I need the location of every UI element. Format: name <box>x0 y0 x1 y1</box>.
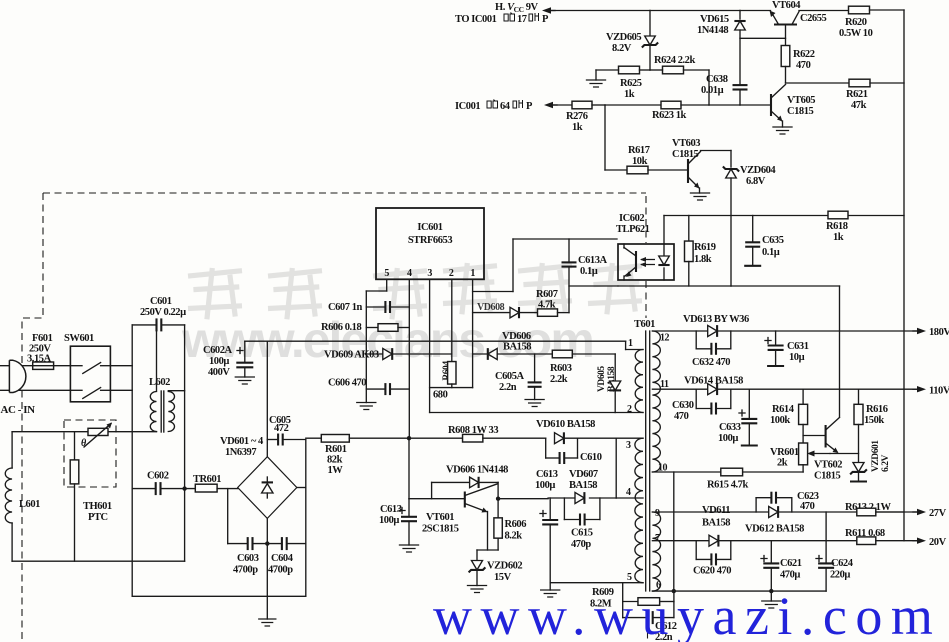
wire LED anode up to R618 row <box>663 216 665 245</box>
svg-text:VD601 ~ 4: VD601 ~ 4 <box>220 436 264 447</box>
optocoupler IC602 TLP621 <box>616 213 674 280</box>
fuse F601 250V 3.15A <box>27 333 54 369</box>
wire VZD604 anode down to IC602 bottom net <box>730 178 732 286</box>
svg-text:2k: 2k <box>777 458 788 469</box>
wire IC601 pin5 to left rail and ground <box>366 279 386 402</box>
svg-text:R621: R621 <box>846 89 868 100</box>
capacitor C631 10u <box>765 331 809 366</box>
bridge rectifier VD601~4 1N6397 <box>220 436 297 518</box>
wire R624 to R623 junction <box>708 70 710 105</box>
wire B+ rail to T601 pin1 <box>245 341 643 349</box>
svg-text:C601: C601 <box>150 296 172 307</box>
svg-text:VT603: VT603 <box>672 138 700 149</box>
svg-text:IC602: IC602 <box>619 213 644 224</box>
svg-text:VD615: VD615 <box>700 14 729 25</box>
wire VD610 row down to VD607 row <box>615 438 617 498</box>
diode VD606 1N4148 (base-collector) <box>432 465 509 499</box>
svg-text:47k: 47k <box>851 100 867 111</box>
AC plug <box>9 360 25 392</box>
output arrow 27V <box>913 508 947 519</box>
resistor R614 100k <box>770 389 808 443</box>
svg-text:1N6397: 1N6397 <box>225 447 256 458</box>
ground at second C613 <box>541 583 560 597</box>
svg-text:150k: 150k <box>864 415 884 426</box>
transistor VT602 C1815 <box>803 418 858 482</box>
svg-text:C610: C610 <box>580 452 602 463</box>
capacitor C635 0.1u <box>744 216 784 266</box>
svg-text:2.2k: 2.2k <box>550 374 568 385</box>
diode VD608 <box>473 302 519 318</box>
ground at C602A <box>235 377 254 384</box>
capacitor C633 100u <box>718 389 758 445</box>
svg-text:C615: C615 <box>571 528 593 539</box>
wire 680 row (pin3 to pin1 via R604 bottom) <box>430 387 473 389</box>
T601 secondary winding 9-7-6 <box>652 508 661 591</box>
svg-text:L601: L601 <box>19 499 40 510</box>
resistor R621 47k <box>846 79 904 111</box>
svg-text:1k: 1k <box>624 89 635 100</box>
svg-text:C624: C624 <box>831 558 854 569</box>
wire IC001 64pin row with arrow <box>544 102 572 108</box>
capacitor C607 1n <box>328 301 409 313</box>
svg-text:110V: 110V <box>929 386 949 397</box>
svg-text:VD613 BY W36: VD613 BY W36 <box>683 314 749 325</box>
wire R276-R623 node down to R617 <box>605 105 627 170</box>
transistor VT605 C1815 <box>771 85 815 128</box>
resistor R609 8.2M <box>590 583 674 610</box>
ground at VT605 emitter <box>773 127 792 134</box>
svg-text:VD614 BA158: VD614 BA158 <box>684 376 743 387</box>
svg-text:1: 1 <box>628 338 633 349</box>
wire C601 left branch down to L602 left top <box>156 325 158 391</box>
wire IC602 bottom row down to VT602 collector <box>839 286 841 417</box>
svg-text:L602: L602 <box>149 377 170 388</box>
svg-text:IC601: IC601 <box>417 222 442 233</box>
resistor R608 1W 33 <box>448 425 546 442</box>
resistor R623 1k <box>652 101 771 121</box>
resistor R618 1k <box>826 211 848 243</box>
capacitor C613A 0.1u <box>562 239 608 313</box>
svg-text:1W: 1W <box>328 465 344 476</box>
wire 20V row (pin 7) <box>652 540 856 542</box>
svg-text:VZD601: VZD601 <box>871 440 881 472</box>
thermistor TH601 heater <box>81 423 112 450</box>
wire C601-right vertical lower junction <box>182 486 186 561</box>
resistor R619 1.8k <box>685 216 716 287</box>
thermistor TH601 PTC body <box>70 432 79 562</box>
svg-text:5: 5 <box>384 268 389 279</box>
capacitor C621 470u <box>761 541 802 594</box>
wire switch outputs to vertical node <box>110 325 132 596</box>
svg-text:6.8V: 6.8V <box>746 176 766 187</box>
T601 primary winding 3-4-5 <box>626 438 643 583</box>
svg-text:470: 470 <box>796 60 811 71</box>
resistor R617 10k <box>627 145 688 174</box>
wire collector node row <box>496 497 548 501</box>
svg-text:0.1µ: 0.1µ <box>580 266 598 277</box>
svg-text:BA158: BA158 <box>702 518 730 529</box>
capacitor C638 0.01u <box>701 74 748 105</box>
resistor R606 0.18 <box>321 322 409 333</box>
diode VD607 BA158 <box>569 469 598 504</box>
svg-text:4700p: 4700p <box>268 565 293 576</box>
wire pin1 node to C613A (jog up) <box>473 291 513 293</box>
resistor R622 470 <box>781 46 815 84</box>
svg-text:R618: R618 <box>826 221 848 232</box>
svg-text:3: 3 <box>427 268 432 279</box>
svg-text:AC - IN: AC - IN <box>1 404 36 416</box>
svg-text:400V: 400V <box>208 367 230 378</box>
svg-text:VT605: VT605 <box>787 95 815 106</box>
wire VD615-C638 node to VT604 base <box>740 37 786 39</box>
capacitor C603 4700p <box>228 489 268 576</box>
capacitor C606 470 <box>328 378 409 396</box>
capacitor C620 470 <box>693 541 731 577</box>
svg-text:470: 470 <box>800 501 815 512</box>
degauss coil L601 <box>5 432 40 562</box>
output arrow 180V <box>913 327 949 338</box>
svg-text:P: P <box>542 14 549 25</box>
diode VD606 BA158 (snubber) <box>473 331 552 360</box>
wire 110V row (pin 11) <box>652 388 917 390</box>
ground at VZD602 <box>468 586 487 593</box>
diode VD605 BA158 (vertical) <box>597 354 621 413</box>
wire R608 row junction node <box>407 436 463 440</box>
svg-text:P: P <box>526 101 533 112</box>
dashed primary-side boundary <box>22 193 648 642</box>
svg-text:10µ: 10µ <box>789 352 805 363</box>
wire IC601 pin1 vertical <box>472 279 474 387</box>
svg-text:TH601: TH601 <box>83 501 112 512</box>
svg-text:VR601: VR601 <box>770 447 799 458</box>
svg-text:C630: C630 <box>672 400 694 411</box>
resistor R604 680 <box>433 361 456 401</box>
svg-text:R614: R614 <box>772 404 795 415</box>
svg-text:VD606 1N4148: VD606 1N4148 <box>446 465 508 476</box>
wire H.Vcc top rail <box>542 7 771 13</box>
svg-text:2.2n: 2.2n <box>499 382 517 393</box>
svg-text:4700p: 4700p <box>233 565 258 576</box>
zener VZD601 6.2V <box>850 440 891 482</box>
wire bridge - output down <box>266 518 268 543</box>
svg-text:VD610 BA158: VD610 BA158 <box>536 419 595 430</box>
svg-text:VD608: VD608 <box>477 302 505 313</box>
svg-text:R624 2.2k: R624 2.2k <box>654 55 695 66</box>
zener VZD604 6.8V <box>723 165 777 187</box>
svg-text:R606: R606 <box>505 519 527 530</box>
svg-text:R276: R276 <box>566 111 588 122</box>
capacitor C602A 100u 400V <box>203 341 253 378</box>
svg-text:VT604: VT604 <box>772 0 801 11</box>
svg-text:R622: R622 <box>793 49 815 60</box>
svg-text:TO IC001: TO IC001 <box>455 14 497 25</box>
capacitor C613 100u (second) <box>535 469 558 583</box>
svg-text:220µ: 220µ <box>830 570 850 581</box>
svg-text:C638: C638 <box>706 74 728 85</box>
capacitor C612 2.2n <box>623 602 677 642</box>
resistor R603 2.2k <box>550 350 615 385</box>
svg-text:VD607: VD607 <box>569 469 598 480</box>
wire pin6 common rail <box>652 589 826 593</box>
resistor R616 150k <box>854 389 888 462</box>
svg-text:www.wuyazi.com: www.wuyazi.com <box>433 586 941 642</box>
svg-text:VD609 AK03: VD609 AK03 <box>324 350 379 361</box>
capacitor C601 250V 0.22u <box>132 296 186 331</box>
wire pin10 down to pin6 rail <box>673 472 675 591</box>
dashed TH601 box <box>64 420 116 487</box>
diode VD614 BA158 <box>684 376 743 396</box>
svg-text:C613: C613 <box>380 504 402 515</box>
svg-text:C635: C635 <box>762 235 784 246</box>
diode VD615 1N4148 <box>697 11 746 85</box>
ground at VT603 emitter <box>691 193 710 200</box>
capacitor C610 <box>546 438 602 464</box>
diode VD613 BYW36 <box>683 314 749 337</box>
svg-text:VZD604: VZD604 <box>740 165 776 176</box>
svg-text:250V 0.22µ: 250V 0.22µ <box>140 307 186 318</box>
svg-text:IC001: IC001 <box>455 101 480 112</box>
resistor R601 82k 1W <box>306 435 409 477</box>
svg-text:VD612 BA158: VD612 BA158 <box>745 524 804 535</box>
transistor VT603 C1815 <box>672 138 701 193</box>
svg-text:470µ: 470µ <box>780 570 800 581</box>
svg-text:C633: C633 <box>719 422 741 433</box>
svg-text:C602A: C602A <box>203 345 233 356</box>
resistor R624 2.2k <box>650 55 709 74</box>
wire VT605 collector node to R621 <box>786 82 850 84</box>
resistor R606 8.2k <box>494 499 526 550</box>
svg-text:VT602: VT602 <box>814 460 842 471</box>
svg-text:VD605: VD605 <box>597 366 607 392</box>
watermark chinese characters (decorative, not labeled further) <box>188 263 642 319</box>
diode VD612 BA158 <box>745 506 804 534</box>
wire AC2 bottom rail <box>132 595 306 597</box>
wire AC top line <box>0 365 70 367</box>
transformer TR601 (line filter) <box>193 474 238 492</box>
wire C601 right branch down to C602 row <box>168 325 184 489</box>
switch SW601 (double pole) <box>64 333 110 402</box>
capacitor C604 4700p <box>265 537 306 575</box>
transistor VT604 C2655 <box>770 0 827 46</box>
diode VD610 BA158 <box>536 419 643 444</box>
node H.Vcc 9V label <box>495 2 539 14</box>
svg-text:C1815: C1815 <box>787 106 814 117</box>
svg-text:C621: C621 <box>780 558 802 569</box>
label VD611 BA158 <box>702 505 730 529</box>
svg-text:R617: R617 <box>628 145 650 156</box>
wire 27V row (pin 9) <box>652 511 904 513</box>
wire IC602 top-left to C613A/pin1 node <box>513 239 617 292</box>
wire 180V row (pin 12) <box>652 330 917 332</box>
svg-text:BA158: BA158 <box>503 342 531 353</box>
svg-text:0.01µ: 0.01µ <box>701 85 724 96</box>
diode VD609 AK03 <box>324 348 452 360</box>
svg-text:STRF6653: STRF6653 <box>408 235 452 246</box>
node IC001 pin64 label <box>455 100 533 113</box>
wire top rail right of VT604 <box>799 10 848 12</box>
wire emitter/R606 bottom row <box>477 549 498 551</box>
resistor R613 2 1W <box>845 502 917 516</box>
wire IC601 pin4 vertical <box>408 279 410 438</box>
capacitor C624 220u <box>816 512 854 591</box>
wire right rail (from R620 down to 20V row) <box>903 10 905 541</box>
svg-text:470: 470 <box>674 411 689 422</box>
wire IC601 pin2 vertical <box>451 279 453 361</box>
svg-text:R606 0.18: R606 0.18 <box>321 322 361 333</box>
ground on secondary common rail <box>762 591 781 608</box>
wire degauss heater row <box>12 431 156 433</box>
svg-text:VZD602: VZD602 <box>487 561 522 572</box>
svg-text:TR601: TR601 <box>193 474 221 485</box>
ground below bridge <box>259 544 276 626</box>
capacitor C602 <box>132 471 195 496</box>
wire AC bottom line <box>0 389 70 391</box>
svg-text:1k: 1k <box>572 122 583 133</box>
svg-text:C605A: C605A <box>495 371 525 382</box>
svg-text:R607: R607 <box>536 289 558 300</box>
svg-text:17: 17 <box>517 14 527 25</box>
svg-text:C631: C631 <box>787 341 809 352</box>
wire AC2 vertical (bridge right) <box>297 440 306 597</box>
zener VZD605 8.2V <box>606 11 658 71</box>
wire R618 row (LED anode to right rail) <box>664 215 904 217</box>
svg-text:R616: R616 <box>866 404 888 415</box>
svg-text:472: 472 <box>274 423 289 434</box>
svg-text:4: 4 <box>626 487 631 498</box>
svg-text:R620: R620 <box>845 17 867 28</box>
ground at left rail <box>357 403 376 410</box>
svg-text:R625: R625 <box>620 78 642 89</box>
svg-text:680: 680 <box>433 390 448 401</box>
resistor R615 4.7k <box>707 468 748 490</box>
svg-text:C632 470: C632 470 <box>692 357 730 368</box>
svg-text:R601: R601 <box>325 444 347 455</box>
svg-text:6.2V: 6.2V <box>881 454 891 472</box>
svg-text:C1815: C1815 <box>814 471 841 482</box>
svg-text:C604: C604 <box>271 553 294 564</box>
capacitor C605A 2.2n <box>495 354 542 400</box>
wire bridge + output up to B+ rail <box>266 341 268 457</box>
svg-text:VD611: VD611 <box>702 505 730 516</box>
node TO IC001 pin17 label <box>455 13 549 26</box>
svg-text:R615 4.7k: R615 4.7k <box>707 480 748 491</box>
svg-text:C613: C613 <box>536 469 558 480</box>
svg-text:4: 4 <box>407 268 412 279</box>
svg-text:10k: 10k <box>632 156 648 167</box>
svg-text:PTC: PTC <box>88 512 108 523</box>
wire base node vertical (to VT601) <box>409 438 464 499</box>
svg-text:VT601: VT601 <box>426 512 454 523</box>
svg-text:SW601: SW601 <box>64 333 94 344</box>
svg-text:100k: 100k <box>770 415 790 426</box>
svg-text:R603: R603 <box>550 363 572 374</box>
potentiometer VR601 2k <box>770 443 830 472</box>
svg-text:0.1µ: 0.1µ <box>762 247 780 258</box>
T601 primary winding 1-2 <box>627 338 643 415</box>
svg-text:www.eleclans.com: www.eleclans.com <box>181 312 593 368</box>
svg-text:1.8k: 1.8k <box>694 254 712 265</box>
transformer T601 core <box>634 319 655 591</box>
ground at C613 <box>400 545 419 552</box>
capacitor C613 100u (at VT601 base) <box>379 499 417 545</box>
svg-text:0.5W 10: 0.5W 10 <box>839 28 873 39</box>
svg-text:5: 5 <box>627 572 632 583</box>
svg-text:100µ: 100µ <box>379 515 399 526</box>
svg-text:3: 3 <box>626 440 631 451</box>
capacitor C605 472 <box>267 415 306 446</box>
ground at R625 <box>587 70 606 87</box>
wire pin10 row <box>652 471 803 473</box>
capacitor C632 470 <box>692 331 731 368</box>
svg-text:TLP621: TLP621 <box>616 224 650 235</box>
svg-text:100µ: 100µ <box>535 480 555 491</box>
svg-text:1: 1 <box>470 268 475 279</box>
svg-text:100µ: 100µ <box>209 356 229 367</box>
wire T601 pin5 row <box>550 582 643 584</box>
wire degauss bottom rail <box>12 560 185 562</box>
svg-text:11: 11 <box>660 379 669 390</box>
svg-text:R623 1k: R623 1k <box>652 110 687 121</box>
svg-text:7: 7 <box>655 533 660 544</box>
svg-text:470p: 470p <box>571 539 591 550</box>
wire IC601 pin3 vertical <box>429 279 431 412</box>
svg-text:1N4148: 1N4148 <box>697 25 728 36</box>
transistor VT601 2SC1815 <box>422 484 498 550</box>
svg-text:2SC1815: 2SC1815 <box>422 524 459 535</box>
T601 secondary winding 12-11-10 <box>652 331 669 474</box>
wire VD607 row <box>548 497 643 499</box>
svg-text:C2655: C2655 <box>800 13 827 24</box>
zener VZD602 15V <box>469 550 523 586</box>
resistor R620 0.5W 10 <box>839 6 904 39</box>
svg-text:27V: 27V <box>929 508 947 519</box>
svg-text:12: 12 <box>660 333 670 344</box>
svg-text:64: 64 <box>500 101 511 112</box>
svg-text:2: 2 <box>449 268 454 279</box>
svg-text:C606 470: C606 470 <box>328 378 366 389</box>
svg-text:180V: 180V <box>929 327 949 338</box>
IC601 STRF6653 box <box>376 208 484 279</box>
svg-text:C613A: C613A <box>578 255 608 266</box>
svg-text:8.2k: 8.2k <box>505 531 523 542</box>
label TH601 PTC <box>83 501 112 523</box>
svg-text:C607 1n: C607 1n <box>328 302 363 313</box>
svg-text:82k: 82k <box>327 455 343 466</box>
svg-text:20V: 20V <box>929 537 947 548</box>
svg-text:T601: T601 <box>634 319 655 330</box>
svg-text:C602: C602 <box>147 471 169 482</box>
capacitor C623 470 <box>756 491 819 512</box>
output arrow 20V <box>913 537 947 548</box>
ground at C605A <box>525 400 544 407</box>
svg-text:R619: R619 <box>694 242 716 253</box>
svg-text:VD606: VD606 <box>502 331 531 342</box>
wire IC602 bottom row <box>569 285 840 287</box>
svg-text:VZD605: VZD605 <box>606 32 641 43</box>
resistor R276 1k <box>566 101 661 133</box>
svg-text:2: 2 <box>627 404 632 415</box>
svg-text:1k: 1k <box>833 232 844 243</box>
svg-text:BA158: BA158 <box>569 480 597 491</box>
capacitor C615 470p <box>564 498 600 550</box>
svg-text:8.2V: 8.2V <box>612 43 632 54</box>
diode VD611 BA158 (on 20V row) <box>709 535 718 546</box>
resistor R611 0.68 <box>845 528 917 545</box>
svg-text:C603: C603 <box>237 553 259 564</box>
resistor R625 1k <box>596 66 650 100</box>
svg-text:15V: 15V <box>494 572 512 583</box>
svg-text:F601: F601 <box>32 333 53 344</box>
